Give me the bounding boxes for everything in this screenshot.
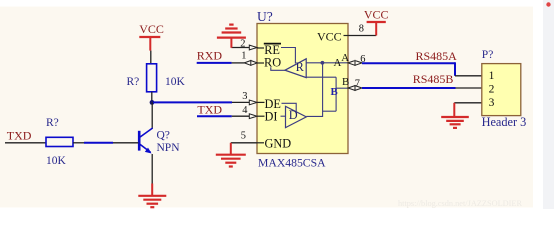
svg-text:8: 8 bbox=[359, 24, 364, 35]
svg-text:NPN: NPN bbox=[157, 142, 181, 154]
svg-text:R: R bbox=[296, 60, 305, 74]
ground (header pin 3) bbox=[441, 103, 469, 128]
pin 6 arrow bbox=[348, 61, 362, 66]
junction node collector/DE bbox=[150, 100, 155, 105]
svg-text:3: 3 bbox=[242, 91, 247, 102]
svg-text:https://blog.csdn.net/JAZZSOLD: https://blog.csdn.net/JAZZSOLDIER bbox=[398, 199, 522, 208]
svg-text:10K: 10K bbox=[165, 76, 186, 88]
wire pin 8 VCC bbox=[348, 35, 376, 37]
pin 4 arrow bbox=[249, 114, 257, 119]
wire RS485A bbox=[362, 62, 482, 76]
power VCC (pin 8) bbox=[364, 7, 389, 35]
svg-text:10K: 10K bbox=[46, 155, 67, 167]
svg-text:R?: R? bbox=[46, 117, 59, 129]
svg-text:P?: P? bbox=[482, 49, 494, 61]
pin stub DI bbox=[257, 115, 265, 117]
svg-text:RXD: RXD bbox=[197, 49, 223, 63]
pin 7 arrow bbox=[348, 86, 362, 91]
wire RE enable bbox=[281, 48, 295, 64]
wire VCC to R? bbox=[150, 51, 152, 64]
wire DI to driver bbox=[281, 115, 286, 117]
svg-text:MAX485CSA: MAX485CSA bbox=[258, 156, 326, 169]
pin stub DE bbox=[257, 101, 265, 103]
wire header pin 3 bbox=[454, 102, 482, 104]
pin 3 arrow bbox=[249, 100, 257, 105]
svg-text:Header 3: Header 3 bbox=[482, 115, 527, 129]
svg-text:7: 7 bbox=[355, 78, 360, 89]
pin stub GND bbox=[257, 142, 264, 144]
pin name RE (with overline) bbox=[264, 43, 281, 57]
svg-text:5: 5 bbox=[241, 131, 246, 142]
junction node A bbox=[321, 61, 325, 65]
transistor Q1 bbox=[139, 128, 152, 154]
resistor R1 (vertical 10K) bbox=[147, 64, 157, 92]
svg-text:4: 4 bbox=[242, 105, 248, 116]
pin stub VCC8 bbox=[344, 35, 349, 37]
wire TXD input bbox=[5, 142, 46, 144]
wire net B vertical bbox=[335, 77, 337, 111]
svg-text:R?: R? bbox=[127, 76, 140, 88]
wire pin 2 bbox=[231, 47, 249, 49]
svg-text:U?: U? bbox=[257, 9, 273, 24]
ground (pin 5) bbox=[216, 143, 246, 167]
wire pin 5 GND bbox=[231, 142, 257, 144]
wire net A internal bbox=[306, 62, 348, 64]
svg-text:1: 1 bbox=[489, 70, 495, 82]
wire TXD to DI bbox=[197, 115, 250, 117]
svg-text:B: B bbox=[342, 76, 349, 88]
wire Q? emitter bbox=[151, 154, 153, 184]
wire DE net bbox=[153, 101, 250, 103]
wire R? to Q? base bbox=[73, 142, 138, 144]
IC U? MAX485CSA body bbox=[257, 24, 348, 154]
svg-text:RS485B: RS485B bbox=[413, 72, 454, 86]
wire DE enable bbox=[282, 103, 297, 112]
wire driver output bbox=[306, 63, 322, 117]
connector P? Header 3 body bbox=[482, 64, 521, 116]
svg-text:TXD: TXD bbox=[197, 103, 222, 117]
svg-text:2: 2 bbox=[489, 83, 495, 95]
svg-text:GND: GND bbox=[265, 136, 292, 150]
svg-text:1: 1 bbox=[241, 51, 246, 62]
driver triangle D bbox=[286, 106, 307, 127]
pin 1 arrow bbox=[244, 61, 257, 66]
wire receiver input B bbox=[306, 76, 336, 78]
svg-text:VCC: VCC bbox=[364, 7, 389, 21]
wire R? to node bbox=[151, 92, 153, 103]
ground (RE pin 2, pointing up) bbox=[217, 25, 246, 48]
svg-text:A: A bbox=[334, 57, 342, 69]
svg-text:TXD: TXD bbox=[7, 128, 32, 142]
svg-text:VCC: VCC bbox=[317, 29, 342, 43]
wire RS485B bbox=[362, 87, 482, 89]
svg-text:3: 3 bbox=[489, 97, 495, 109]
pin stub RO bbox=[257, 62, 264, 64]
resistor R2 (horizontal 10K) bbox=[46, 137, 73, 146]
svg-text:VCC: VCC bbox=[139, 22, 164, 36]
wire RO to receiver bbox=[271, 67, 285, 70]
wire node to Q? collector bbox=[151, 102, 153, 128]
pin stub RE bbox=[257, 47, 264, 49]
svg-text:RO: RO bbox=[264, 55, 281, 69]
receiver triangle R bbox=[285, 59, 306, 78]
svg-text:Q?: Q? bbox=[157, 130, 170, 142]
svg-text:DI: DI bbox=[265, 109, 278, 123]
wire RXD bbox=[197, 62, 245, 64]
wire driver to B bbox=[323, 110, 337, 112]
pin 2 arrow bbox=[249, 45, 257, 50]
power VCC (left) bbox=[139, 22, 164, 50]
ground (emitter) bbox=[138, 184, 166, 208]
svg-text:RS485A: RS485A bbox=[416, 49, 458, 63]
wire net B internal bbox=[336, 87, 348, 89]
svg-text:B: B bbox=[331, 86, 338, 98]
